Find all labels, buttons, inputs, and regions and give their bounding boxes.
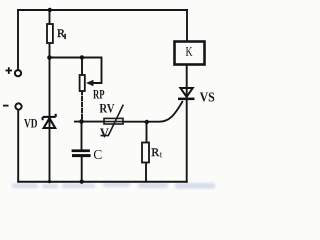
svg-text:V: V	[100, 125, 109, 140]
svg-text:VS: VS	[200, 89, 215, 104]
svg-text:VD: VD	[24, 116, 38, 130]
svg-text:C: C	[93, 147, 102, 162]
svg-text:R: R	[57, 26, 65, 40]
svg-text:R: R	[151, 145, 159, 159]
svg-text:K: K	[186, 44, 193, 59]
svg-text:RV: RV	[99, 100, 115, 115]
